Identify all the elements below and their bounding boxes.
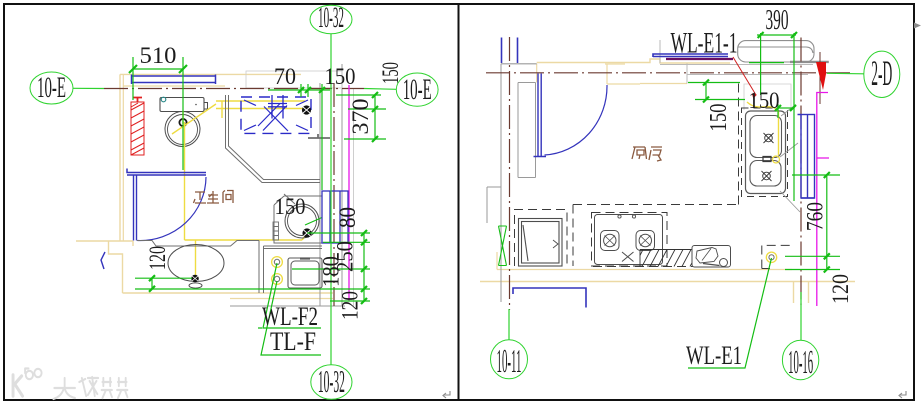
axis line 10-32 vertical dark red — [333, 83, 335, 306]
dim 390 — [757, 32, 797, 201]
counter dashed left — [572, 205, 574, 267]
svg-text:WL-E1-1: WL-E1-1 — [671, 27, 738, 60]
toilet tank button — [161, 97, 166, 102]
wall tan bottom — [123, 292, 334, 294]
pipe yellow diagonal — [172, 104, 216, 240]
right blue cabinet — [798, 115, 815, 199]
dim text frame gray box — [246, 71, 342, 88]
kitchen sink bowl upper — [750, 116, 782, 158]
kitchen sink outer — [746, 111, 786, 194]
svg-text:TL-F: TL-F — [270, 327, 316, 356]
wall tan left outer — [119, 74, 121, 241]
sink drain upper — [764, 133, 774, 143]
kitchen gray top right walls — [660, 40, 813, 84]
svg-text:180: 180 — [319, 256, 344, 287]
axis circle 10-16 — [782, 292, 818, 381]
basin counter gray — [274, 194, 322, 243]
radiator red hatched — [131, 98, 144, 156]
svg-text:10-E: 10-E — [403, 73, 432, 106]
kitchen axis horizontal — [486, 72, 852, 74]
wall tan bottom outer — [230, 298, 333, 300]
LEFT PANEL annotations — [30, 1, 438, 399]
svg-text:760: 760 — [803, 202, 828, 231]
pipe yellow basin stub — [302, 235, 307, 241]
basin drain — [302, 228, 311, 237]
drain circles yellow halo — [272, 257, 283, 285]
svg-text:150: 150 — [749, 88, 780, 113]
door threshold gray — [137, 241, 259, 247]
RIGHT PANEL: kitchen plan — [480, 37, 855, 310]
toilet flush circle — [179, 119, 186, 126]
dim chain 760/120 right — [785, 172, 840, 273]
kitchen wall tan door jamb — [605, 64, 640, 84]
sink leader gray — [780, 105, 800, 213]
kitchen door leaf blue — [534, 74, 547, 157]
waste riser magenta vertical — [348, 85, 350, 301]
kitchen bottom axis stub — [800, 38, 802, 306]
toilet tank dot — [195, 104, 197, 106]
green insulation X left wall — [499, 226, 507, 266]
wall tan top — [120, 73, 301, 75]
axis circle 10-32 top — [310, 1, 352, 365]
red leader WL-E1-1 — [733, 57, 756, 98]
svg-text:70: 70 — [274, 64, 296, 89]
axis circle 10-11 — [491, 309, 528, 380]
top window WL-E1-1 blue — [653, 54, 728, 57]
extension gray vertical — [353, 88, 355, 306]
shower dashed square blue — [241, 97, 311, 133]
counter dashed top — [573, 204, 739, 206]
kitchen drain yellow halo — [766, 252, 776, 262]
water heater appliance — [692, 246, 731, 268]
vanity counter gray — [264, 246, 323, 249]
kitchen door jamb tan vertical — [536, 64, 538, 83]
pipe yellow horizontal cold — [216, 108, 305, 110]
red riser solid — [816, 62, 826, 90]
shower enclosure walls gray — [226, 95, 321, 183]
svg-text:80: 80 — [335, 207, 360, 228]
pipe yellow vertical mid — [221, 102, 223, 119]
pipe yellow kitchen — [747, 102, 779, 155]
counter dashed bottom — [593, 266, 727, 268]
left window blue — [502, 38, 518, 64]
kitchen gray left wall — [500, 64, 502, 302]
RIGHT PANEL annotations — [491, 5, 900, 381]
pipe blue stub outside — [101, 252, 105, 269]
toilet tank side tab — [204, 103, 208, 110]
drainboard hatched — [640, 250, 727, 267]
bottom window blue — [513, 288, 586, 308]
pipe yellow toilet vertical — [182, 111, 184, 124]
door leaf blue — [134, 175, 137, 241]
svg-text:150: 150 — [378, 62, 403, 84]
sink dashed box — [742, 108, 788, 197]
stove body — [595, 215, 663, 265]
dim 70/150 top — [268, 84, 330, 190]
svg-text:120: 120 — [145, 246, 170, 270]
axis circle 10-E left — [30, 71, 104, 104]
kitchen wall tan top — [537, 59, 730, 63]
svg-text:2-D: 2-D — [871, 53, 892, 93]
toilet tank — [160, 98, 204, 112]
dim 150 sink — [749, 63, 796, 118]
kitchen gray building edge top left — [501, 63, 537, 65]
kitchen wall tan left stub — [496, 252, 498, 270]
dim chain right lower — [135, 230, 370, 304]
svg-text:10-E: 10-E — [37, 71, 66, 104]
stove knobs — [618, 215, 621, 218]
door upper blue frame — [127, 169, 206, 176]
svg-text:10-16: 10-16 — [788, 344, 813, 381]
kitchen axis vertical right small — [819, 52, 821, 104]
kitchen wall tan bottom inner — [497, 269, 792, 271]
kitchen gray door jamb box — [518, 83, 536, 178]
return glyph right — [899, 391, 906, 398]
stove burner right — [636, 231, 655, 251]
kitchen sink bowl lower — [750, 161, 781, 187]
bathtub drain — [189, 275, 202, 288]
sink drain lower — [762, 171, 772, 181]
bathtub oval — [168, 245, 224, 282]
svg-text:WL-E1: WL-E1 — [686, 341, 742, 370]
room label 卫生间 — [194, 191, 234, 204]
leader TL-F green — [261, 281, 321, 355]
svg-text:10-32: 10-32 — [318, 363, 345, 399]
leader WL-E1 green — [688, 258, 772, 368]
dim 150 left vertical — [688, 80, 745, 103]
wall gray bottom outer — [230, 305, 345, 307]
wall tan left inner — [122, 74, 124, 241]
watermark — [13, 369, 127, 400]
kitchen gray left lower — [487, 187, 501, 223]
kitchen wall tan inner top right — [640, 83, 687, 85]
svg-text:10-32: 10-32 — [318, 1, 344, 34]
shower floor drain — [302, 105, 311, 114]
shower mixer gray — [308, 134, 330, 138]
window top blue — [132, 75, 216, 85]
return glyph left — [443, 391, 450, 398]
shower symbol H — [268, 95, 287, 119]
dim 510 — [129, 57, 187, 170]
gray thick corner top right — [790, 61, 829, 63]
dim 120 bathtub — [135, 275, 192, 292]
stove burner left — [601, 231, 620, 251]
pipe yellow horizontal hot — [216, 100, 305, 102]
axis circle 10-32 bottom — [311, 363, 352, 399]
stove dashed box — [592, 213, 668, 267]
leader WL-F2 green — [258, 263, 321, 328]
basin towel grille — [273, 222, 279, 240]
basin green leader mark — [305, 218, 322, 226]
stove X mark — [622, 252, 634, 262]
kitchen axis vertical left — [509, 37, 511, 310]
pipe yellow tub vertical — [195, 240, 197, 277]
dim chain right upper — [336, 92, 386, 142]
svg-text:150: 150 — [325, 64, 356, 89]
wall gray right face — [319, 83, 321, 306]
svg-text:510: 510 — [140, 43, 177, 68]
wall tan bottom-left niche — [76, 241, 133, 293]
magenta riser kitchen — [817, 93, 829, 307]
svg-text:120: 120 — [338, 291, 363, 320]
LEFT PANEL: bathroom plan — [76, 64, 364, 306]
wall tan inner top — [123, 85, 225, 87]
axis circle 10-E right — [364, 73, 438, 106]
fridge — [519, 219, 563, 267]
door swing arc blue — [138, 177, 207, 241]
partition gray doubles — [259, 241, 264, 294]
wall gray right outer face — [341, 64, 343, 306]
washing machine blue box — [322, 191, 348, 243]
toilet bowl — [165, 112, 200, 147]
sink faucet dot — [763, 157, 771, 162]
room label 厨房 — [632, 147, 662, 161]
purple pipe top — [666, 58, 733, 60]
vanity sink square — [288, 258, 322, 288]
wall tan verticals bottom right — [794, 282, 809, 303]
pipe yellow horizontal low — [185, 239, 303, 241]
counter dashed edge right — [738, 84, 740, 205]
svg-text:150: 150 — [275, 194, 306, 219]
shower symbol X — [258, 104, 288, 132]
wash basin circle — [285, 204, 319, 238]
axis line 10-E horizontal — [104, 88, 364, 90]
kitchen door arc blue — [545, 85, 608, 155]
svg-text:370: 370 — [348, 99, 373, 135]
tick mark outside frame — [914, 23, 921, 29]
kitchen wall tan bottom outer — [480, 281, 855, 283]
svg-text:390: 390 — [766, 5, 789, 36]
axis circle 2-D — [827, 51, 900, 97]
svg-text:120: 120 — [828, 274, 853, 304]
gray box around 150 — [744, 84, 791, 110]
fridge dashed box — [515, 210, 568, 267]
svg-text:150: 150 — [706, 104, 732, 132]
range hood gray rounded — [738, 41, 814, 62]
right counter dashed box — [762, 245, 793, 268]
svg-text:10-11: 10-11 — [497, 343, 522, 380]
